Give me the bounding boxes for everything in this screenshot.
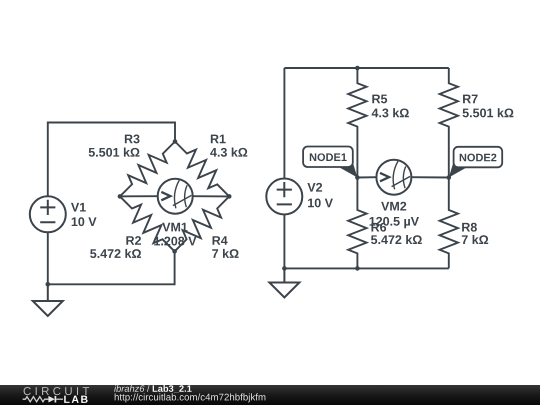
label R3 value 5.501 kΩ (89, 148, 140, 157)
ground (left) (33, 284, 63, 316)
label V1 (71, 203, 86, 212)
label R7 value 5.501 kΩ (463, 108, 514, 117)
resistor R1 (175, 142, 229, 197)
label R1 (211, 135, 226, 144)
label R8 value 7 kΩ (462, 235, 488, 244)
wire VM1 right lead (193, 195, 230, 197)
label VM2 (381, 202, 406, 211)
node NODE1 junction (355, 175, 360, 180)
resistor R5 (348, 68, 366, 178)
resistor R6 (348, 178, 366, 269)
node: bridge left junction (118, 194, 123, 199)
label R5 value 4.3 kΩ (372, 108, 409, 117)
label V2 value 10 V (308, 198, 333, 207)
node: V1 ground junction (46, 282, 51, 287)
wire bottom rail (right circuit) (284, 267, 448, 269)
label R8 (462, 223, 477, 232)
node NODE2 junction (447, 175, 452, 180)
label NODE2 (460, 154, 497, 162)
footer attribution ibrahz6 / Lab3_2.1 (114, 385, 144, 392)
voltmeter VM2 (376, 160, 411, 195)
node: V2 ground junction (282, 266, 287, 271)
node: bottom rail junction (355, 266, 360, 271)
footer bar (0, 385, 540, 405)
label R5 (372, 95, 387, 104)
label VM1 (162, 223, 187, 232)
wire VM2 left lead (357, 176, 376, 178)
voltage source V1 (30, 196, 66, 232)
label VM2 value 120.5 µV (370, 217, 419, 228)
node: top rail junction (355, 66, 360, 71)
node flag NODE2 (449, 147, 502, 178)
footer url text circuitlab short link (115, 393, 266, 402)
ground (right) (269, 268, 299, 297)
voltage source V2 (266, 179, 302, 215)
label R2 (126, 236, 141, 245)
label R2 value 5.472 kΩ (90, 249, 141, 258)
CircuitLab logo text CIRCUIT (24, 387, 90, 395)
resistor R3 (120, 142, 175, 197)
resistor R2 (120, 196, 175, 251)
label R4 (213, 236, 228, 245)
label V1 value 10 V (72, 217, 97, 226)
CircuitLab logo resistor zigzag (23, 397, 49, 402)
label V2 (307, 183, 322, 192)
node: bridge top junction (173, 139, 178, 144)
label VM1 value 1.208 V (154, 237, 196, 246)
wire V2 branch top (283, 68, 285, 179)
label R6 (371, 223, 386, 232)
label R3 (125, 134, 140, 143)
label R7 (463, 95, 478, 104)
node: bridge bottom junction (172, 249, 177, 254)
wire bridge bottom node to ground rail (48, 232, 175, 284)
label NODE1 (310, 153, 347, 161)
node: bridge right junction (227, 194, 232, 199)
node flag NODE1 (303, 147, 357, 178)
voltmeter VM1 (158, 179, 193, 214)
wire V2 branch bottom (283, 215, 285, 269)
label R1 value 4.3 kΩ (210, 148, 247, 157)
wire VM2 right lead (411, 176, 448, 178)
CircuitLab logo diode (48, 396, 54, 403)
label R4 value 7 kΩ (212, 249, 238, 258)
wire top rail (right circuit) (284, 67, 448, 69)
resistor R8 (440, 178, 458, 269)
resistor R4 (175, 196, 230, 251)
label R6 value 5.472 kΩ (371, 235, 422, 244)
wire VM1 left lead (120, 195, 158, 197)
CircuitLab logo text LAB (64, 396, 87, 403)
wire V1 top to bridge top node (48, 123, 175, 197)
resistor R7 (440, 68, 458, 178)
